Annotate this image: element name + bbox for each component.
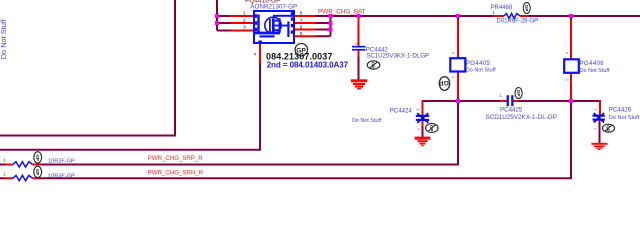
svg-text:PWR_CHG_SRN_R: PWR_CHG_SRN_R — [148, 170, 204, 177]
svg-text:8: 8 — [300, 11, 303, 17]
svg-text:1: 1 — [243, 11, 246, 17]
svg-text:SCD1U25V2KX-1-DL-GP: SCD1U25V2KX-1-DL-GP — [486, 114, 557, 121]
svg-text:2: 2 — [451, 76, 456, 79]
svg-text:2: 2 — [564, 78, 569, 81]
svg-text:SC1U25V3KX-1-DLGP: SC1U25V3KX-1-DLGP — [366, 52, 429, 59]
svg-text:7: 7 — [300, 18, 303, 24]
svg-text:10R3F-GP: 10R3F-GP — [48, 159, 75, 165]
svg-text:Do Not Stuff: Do Not Stuff — [609, 115, 640, 121]
svg-text:1: 1 — [592, 108, 597, 111]
svg-text:3: 3 — [243, 25, 246, 31]
svg-text:2nd = 084.01403.0A37: 2nd = 084.01403.0A37 — [267, 61, 349, 70]
svg-text:Do Not Stuff: Do Not Stuff — [466, 68, 496, 74]
svg-text:1: 1 — [415, 108, 420, 111]
svg-text:GP: GP — [371, 62, 376, 68]
svg-text:4: 4 — [253, 53, 258, 56]
svg-text:AONR21307-GP: AONR21307-GP — [250, 4, 297, 11]
svg-text:PG4405: PG4405 — [466, 60, 491, 67]
svg-text:GP: GP — [35, 169, 40, 176]
svg-text:Do Not Stuff: Do Not Stuff — [580, 68, 610, 74]
svg-text:1: 1 — [564, 51, 569, 54]
svg-text:GP: GP — [524, 5, 529, 12]
svg-text:GP: GP — [516, 90, 521, 97]
svg-text:6: 6 — [300, 24, 303, 30]
svg-text:2: 2 — [416, 128, 421, 131]
svg-text:D01R6F-28-GP: D01R6F-28-GP — [497, 19, 539, 25]
svg-text:PC4426: PC4426 — [609, 107, 632, 114]
svg-text:PG4406: PG4406 — [580, 60, 605, 67]
svg-text:1: 1 — [500, 93, 503, 98]
svg-text:Do Not Stuff: Do Not Stuff — [352, 118, 382, 124]
svg-text:PWR_CHG_SRP_R: PWR_CHG_SRP_R — [148, 155, 203, 162]
svg-text:PC4424: PC4424 — [390, 107, 413, 114]
svg-text:2: 2 — [243, 18, 246, 24]
svg-text:GP: GP — [606, 125, 611, 131]
svg-text:GP: GP — [439, 79, 449, 86]
svg-text:5: 5 — [300, 31, 303, 37]
svg-text:10R3F-GP: 10R3F-GP — [48, 173, 75, 179]
svg-text:PC4425: PC4425 — [500, 107, 523, 114]
svg-text:1: 1 — [3, 157, 6, 163]
svg-text:PWR_CHG_BAT: PWR_CHG_BAT — [318, 8, 366, 15]
svg-text:1: 1 — [451, 51, 456, 54]
svg-text:GP: GP — [35, 154, 40, 161]
svg-text:GP: GP — [429, 125, 434, 131]
svg-text:1: 1 — [3, 172, 6, 178]
svg-text:2: 2 — [592, 127, 597, 130]
svg-text:Do Not Stuff: Do Not Stuff — [0, 18, 8, 59]
